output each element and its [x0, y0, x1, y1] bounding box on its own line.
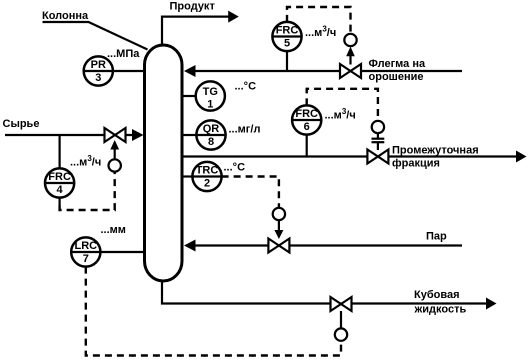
svg-text:TRC: TRC: [196, 165, 219, 177]
arrowhead bottoms: [486, 298, 497, 310]
arrow actuator to steam valve: [278, 220, 280, 232]
svg-text:Пар: Пар: [426, 231, 447, 243]
svg-text:...мм: ...мм: [101, 224, 126, 236]
svg-text:5: 5: [284, 38, 290, 50]
wire QR8 to column: [182, 134, 196, 136]
svg-text:7: 7: [83, 253, 89, 265]
wire dashed TRC2 to steam valve actuator: [222, 177, 279, 208]
svg-text:Продукт: Продукт: [170, 1, 216, 13]
svg-text:8: 8: [208, 136, 214, 148]
instrument FRC6: [292, 105, 321, 134]
svg-text:Сырье: Сырье: [3, 118, 40, 130]
arrowhead feed into column: [132, 129, 144, 141]
svg-text:Колонна: Колонна: [42, 10, 89, 22]
valve feed: [105, 128, 126, 142]
svg-text:2: 2: [204, 178, 210, 190]
actuator circle bottoms valve: [335, 328, 347, 340]
svg-text:...м3/ч: ...м3/ч: [325, 107, 356, 122]
wire bottoms valve to actuator: [340, 311, 342, 328]
instrument TG1: [196, 81, 225, 110]
column vessel: [145, 45, 183, 281]
wire PR3 to column: [113, 70, 146, 72]
svg-text:...м3/ч: ...м3/ч: [70, 154, 101, 169]
wire product line: [162, 17, 230, 45]
svg-text:...мг/л: ...мг/л: [229, 124, 261, 136]
wire reflux line: [193, 70, 462, 72]
svg-text:6: 6: [304, 121, 310, 133]
wire FRC4 stem to feed line: [58, 135, 60, 168]
wire dashed LRC7 to bottoms valve actuator: [86, 267, 341, 356]
instrument FRC4: [45, 168, 74, 197]
arrowhead intermediate fraction: [516, 151, 527, 163]
wire FRC6 stem to line: [306, 135, 308, 157]
valve intermediate fraction: [367, 150, 388, 164]
diaphragm symbol FRC6 valve: [377, 133, 379, 138]
wire feed line: [5, 134, 134, 136]
svg-text:3: 3: [95, 72, 101, 84]
svg-text:орошение: орошение: [369, 71, 424, 83]
wire dashed FRC6 to valve actuator: [307, 89, 378, 121]
instrument FRC5: [272, 22, 301, 51]
arrowhead reflux into column: [184, 65, 196, 77]
wire TG1 to column: [182, 95, 196, 97]
svg-text:FRC: FRC: [48, 171, 71, 183]
svg-text:...°С: ...°С: [235, 81, 257, 93]
wire FRC5 stem to reflux line: [286, 51, 288, 71]
instrument QR8: [196, 120, 225, 149]
arrow actuator to feed valve: [114, 149, 116, 159]
svg-text:фракция: фракция: [392, 158, 440, 170]
instrument PR3: [84, 56, 113, 85]
wire dashed FRC4 to feed valve actuator: [60, 172, 115, 210]
svg-text:Кубовая: Кубовая: [414, 289, 460, 301]
svg-text:жидкость: жидкость: [414, 304, 467, 316]
svg-text:...МПа: ...МПа: [107, 48, 140, 60]
svg-text:FRC: FRC: [276, 25, 299, 37]
svg-text:Флегма на: Флегма на: [369, 58, 426, 70]
svg-text:Промежуточная: Промежуточная: [392, 145, 479, 157]
svg-text:4: 4: [57, 184, 64, 196]
wire dashed FRC5 to reflux actuator: [287, 7, 351, 33]
instrument LRC7: [71, 237, 100, 266]
arrowhead product: [228, 11, 239, 23]
svg-text:PR: PR: [91, 59, 106, 71]
svg-text:QR: QR: [203, 123, 220, 135]
wire steam line: [193, 244, 462, 246]
svg-text:FRC: FRC: [295, 108, 318, 120]
wire intermediate fraction line: [182, 155, 518, 157]
svg-text:...м3/ч: ...м3/ч: [305, 25, 336, 40]
svg-text:LRC: LRC: [74, 240, 97, 252]
actuator circle steam valve: [273, 208, 285, 220]
actuator circle reflux valve: [344, 34, 356, 46]
wire bottoms line: [162, 281, 488, 304]
valve steam: [268, 239, 289, 253]
wire FRC4 bottom stem: [58, 198, 60, 205]
valve bottoms: [331, 297, 352, 311]
actuator circle feed valve: [109, 159, 121, 171]
instrument TRC2: [192, 162, 221, 191]
leader line for Колонна: [43, 22, 148, 50]
svg-text:1: 1: [207, 99, 213, 111]
arrow actuator to reflux valve: [349, 54, 351, 65]
wire TRC2 to column: [182, 175, 192, 177]
wire LRC7 to column: [100, 251, 146, 253]
actuator circle FRC6 valve: [372, 121, 384, 133]
arrowhead steam into column: [184, 240, 196, 252]
valve reflux: [340, 64, 361, 78]
svg-text:TG: TG: [203, 86, 218, 98]
svg-text:...°С: ...°С: [224, 162, 246, 174]
